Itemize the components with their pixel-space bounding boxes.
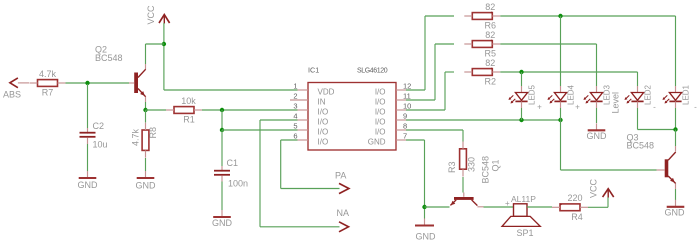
- resistor R6 82: [472, 13, 492, 20]
- svg-text:VCC: VCC: [146, 5, 156, 25]
- resistor R8 4.7k: [142, 130, 149, 150]
- svg-text:2: 2: [293, 92, 297, 101]
- svg-text:NA: NA: [337, 208, 350, 218]
- wire IC pin11 to R5: [406, 99, 435, 101]
- transistor Q1 BC548: [454, 197, 474, 200]
- pin 4 I/O: [298, 119, 309, 121]
- wire VCC down to pin1 row: [163, 23, 165, 90]
- wire Q3 emitter to ground: [675, 189, 677, 200]
- svg-text:82: 82: [485, 2, 495, 12]
- resistor R1 10k: [174, 107, 194, 114]
- wire node down to Q3 collector: [675, 130, 677, 147]
- ground below Q1 emitter node: [424, 209, 426, 219]
- svg-text:Level: Level: [611, 92, 621, 114]
- node junction R7/C2/Q2: [85, 81, 89, 85]
- pin 9 I/O: [396, 119, 406, 121]
- IC IC1 SLG46120 box: [308, 83, 396, 151]
- pin 10 I/O: [396, 109, 406, 111]
- pin 2 IN: [290, 99, 308, 101]
- port ABS arrow: [10, 78, 18, 88]
- ground below C1: [221, 210, 223, 217]
- pin 6 I/O: [298, 139, 309, 141]
- wire junction down to C2: [87, 84, 89, 128]
- svg-text:+: +: [505, 199, 510, 208]
- pin 8 I/O: [396, 129, 406, 131]
- wire R8 to ground: [145, 158, 147, 171]
- wire node down to R8: [145, 110, 147, 123]
- svg-text:330: 330: [467, 157, 477, 172]
- svg-text:10u: 10u: [93, 140, 108, 150]
- resistor R7 4.7k: [38, 80, 58, 87]
- ground below LED3: [596, 123, 598, 130]
- svg-text:IN: IN: [318, 98, 326, 107]
- wire IC pin7 to ground rail: [406, 139, 425, 141]
- svg-text:-: -: [694, 103, 697, 112]
- svg-text:12: 12: [403, 82, 411, 91]
- svg-text:6: 6: [293, 132, 297, 141]
- svg-text:5: 5: [293, 122, 297, 131]
- svg-text:+: +: [575, 103, 580, 112]
- svg-text:-: -: [653, 103, 656, 112]
- wire LED1 bottom: [675, 108, 677, 130]
- svg-text:LED1: LED1: [682, 84, 691, 105]
- wire LED4 riser: [560, 16, 562, 86]
- wire IC pin8 to R3: [406, 129, 463, 131]
- wire R3 to Q1 collector: [462, 177, 464, 193]
- resistor R4 220: [560, 204, 580, 211]
- wire R2 to LED5/LED2 tops: [500, 71, 637, 73]
- node junction C1/pin5: [220, 128, 224, 132]
- svg-text:BC548: BC548: [627, 141, 655, 151]
- wire IC pin6 to PA: [281, 139, 298, 141]
- svg-text:VCC: VCC: [589, 178, 599, 198]
- node junction LED4/Q3 base branch: [558, 118, 562, 122]
- resistor R3 330: [460, 149, 467, 169]
- svg-text:GND: GND: [368, 138, 386, 147]
- svg-text:SLG46120: SLG46120: [357, 67, 388, 74]
- svg-text:82: 82: [485, 30, 495, 40]
- svg-text:220: 220: [567, 193, 582, 203]
- svg-text:I/O: I/O: [318, 118, 329, 127]
- node junction LED1/LED2/Q3 collector: [673, 127, 677, 131]
- svg-text:LED2: LED2: [644, 84, 653, 105]
- power VCC symbol right: [603, 189, 614, 197]
- LED LED5: [521, 86, 523, 93]
- svg-text:R7: R7: [42, 88, 54, 98]
- wire node to Q1 emitter: [425, 206, 450, 208]
- svg-text:GND: GND: [665, 208, 686, 218]
- svg-text:LED5: LED5: [528, 84, 537, 105]
- svg-text:GND: GND: [78, 180, 99, 190]
- node junction R6/LED4: [558, 14, 562, 18]
- svg-text:VDD: VDD: [318, 88, 335, 97]
- wire R5 to LED3 top: [500, 43, 596, 45]
- wire speaker to R4: [527, 206, 552, 208]
- svg-text:GND: GND: [587, 131, 608, 141]
- power VCC symbol left: [159, 15, 170, 23]
- wire C2 to ground: [87, 144, 89, 171]
- pin 7 GND: [396, 139, 406, 141]
- node junction pin7/Q1 emitter/ground: [422, 205, 426, 209]
- wire R1 to IC pin3: [202, 109, 298, 111]
- wire R6 to LED4/LED1 tops: [500, 15, 675, 17]
- wire VCC junction to Q2 collector: [146, 43, 164, 45]
- wire R7 to Q2 base: [66, 82, 130, 84]
- wire node to IC pin5: [222, 129, 298, 131]
- svg-text:PA: PA: [335, 171, 346, 181]
- svg-text:I/O: I/O: [375, 128, 386, 137]
- pin 11 I/O: [396, 99, 406, 101]
- svg-text:C1: C1: [227, 158, 239, 168]
- pin 3 I/O: [298, 109, 309, 111]
- svg-text:4.7k: 4.7k: [39, 69, 57, 79]
- resistor R2 82: [472, 69, 492, 76]
- wire node down to C1: [221, 130, 223, 166]
- node junction R2/LED5: [519, 70, 523, 74]
- wire LED3 to ground: [596, 108, 598, 123]
- svg-text:SP1: SP1: [516, 228, 533, 238]
- svg-text:R8: R8: [148, 127, 158, 139]
- svg-text:8: 8: [403, 122, 407, 131]
- svg-text:AL11P: AL11P: [511, 194, 536, 204]
- wire IC pin4 to NA: [260, 119, 298, 121]
- svg-text:R3: R3: [447, 161, 457, 173]
- wire Q2 emitter to node: [145, 102, 147, 108]
- LED LED2: [637, 86, 639, 93]
- svg-text:82: 82: [485, 58, 495, 68]
- wire LED2 bottom to node: [637, 108, 639, 130]
- port PA arrow: [339, 183, 349, 193]
- svg-text:10: 10: [403, 102, 411, 111]
- svg-text:9: 9: [403, 112, 407, 121]
- wire LED5 riser: [521, 72, 523, 86]
- svg-text:BC548: BC548: [481, 156, 491, 184]
- pin 5 I/O: [298, 129, 309, 131]
- wire Q1 base to speaker: [484, 206, 514, 208]
- node junction VCC/Q2 collector: [162, 42, 166, 46]
- wire LED4 bottom: [560, 108, 562, 120]
- port NA arrow: [339, 222, 349, 232]
- speaker SP1 AL11P: [514, 204, 528, 217]
- svg-text:R4: R4: [571, 212, 583, 222]
- svg-text:I/O: I/O: [318, 138, 329, 147]
- transistor Q3 BC548: [665, 159, 669, 177]
- svg-text:+: +: [537, 103, 542, 112]
- svg-text:1: 1: [293, 82, 297, 91]
- svg-text:I/O: I/O: [318, 108, 329, 117]
- pin 12 I/O: [396, 89, 406, 91]
- node junction R1/C1 branch: [220, 108, 224, 112]
- svg-text:10k: 10k: [181, 96, 196, 106]
- LED LED1: [675, 86, 677, 93]
- svg-text:GND: GND: [136, 181, 157, 191]
- svg-text:R1: R1: [183, 115, 195, 125]
- wire R4 to VCC: [588, 206, 608, 208]
- wire node to R1: [146, 109, 167, 111]
- LED LED3: [596, 86, 598, 93]
- svg-text:I/O: I/O: [375, 118, 386, 127]
- svg-text:C2: C2: [93, 121, 105, 131]
- node junction pin9/LED5: [519, 118, 523, 122]
- svg-text:4.7k: 4.7k: [131, 128, 141, 146]
- wire LED5 bottom: [521, 108, 523, 120]
- svg-text:Q1: Q1: [491, 159, 501, 171]
- ground below Q3: [675, 200, 677, 207]
- svg-text:LED4: LED4: [567, 84, 576, 105]
- wire IC pin12 to R6: [406, 89, 425, 91]
- pin 1 VDD: [298, 89, 309, 91]
- ground below C2: [87, 171, 89, 178]
- wire ABS to R7: [18, 82, 29, 84]
- svg-text:GND: GND: [212, 218, 233, 228]
- svg-text:I/O: I/O: [375, 98, 386, 107]
- transistor Q2 BC548: [134, 73, 138, 94]
- svg-text:I/O: I/O: [375, 108, 386, 117]
- ground below R8: [145, 171, 147, 178]
- LED LED4: [560, 86, 562, 93]
- capacitor C2 10u: [87, 128, 89, 134]
- wire LED4 node to Q3 base: [560, 120, 562, 170]
- svg-text:7: 7: [403, 132, 407, 141]
- node junction Q2/R1/R8: [143, 108, 147, 112]
- svg-text:I/O: I/O: [318, 128, 329, 137]
- svg-text:IC1: IC1: [308, 65, 319, 74]
- wire IC pin9 to LED5/LED4 bottoms: [406, 119, 561, 121]
- svg-text:11: 11: [403, 92, 411, 101]
- resistor R5 82: [472, 41, 492, 48]
- wire node down to pin5 node: [221, 110, 223, 130]
- wire IC pin10 to R2: [406, 109, 445, 111]
- svg-text:100n: 100n: [228, 179, 248, 189]
- svg-text:GND: GND: [416, 232, 437, 242]
- wire VCC to IC pin1 VDD: [164, 89, 298, 91]
- svg-text:I/O: I/O: [375, 88, 386, 97]
- capacitor C1 100n: [221, 166, 223, 172]
- svg-text:ABS: ABS: [3, 89, 21, 99]
- svg-text:3: 3: [293, 102, 297, 111]
- svg-text:4: 4: [293, 112, 297, 121]
- svg-text:R2: R2: [485, 77, 497, 87]
- wire C1 to ground: [221, 182, 223, 211]
- svg-text:BC548: BC548: [95, 53, 123, 63]
